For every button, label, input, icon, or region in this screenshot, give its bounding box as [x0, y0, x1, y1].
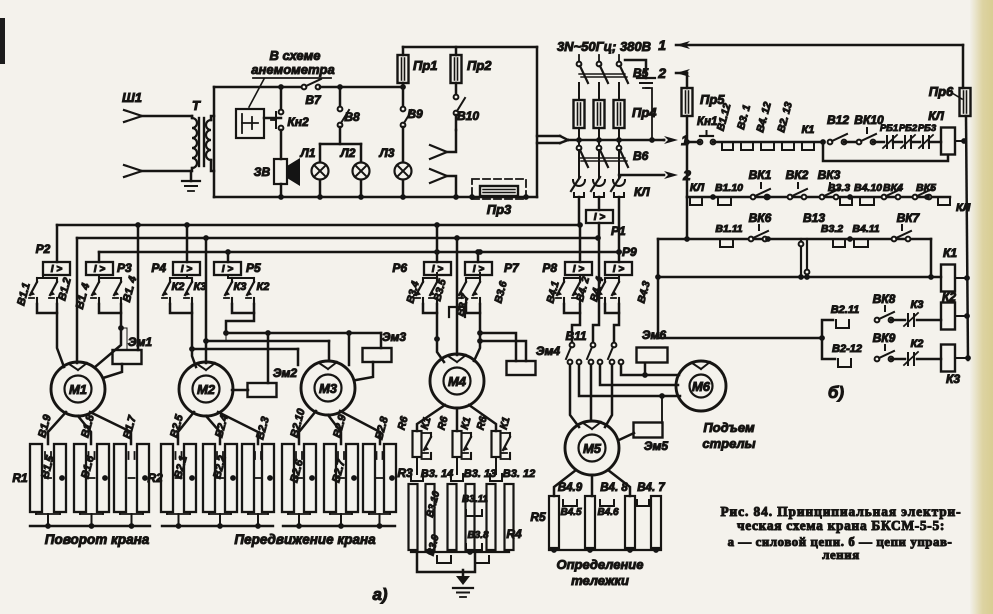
- wire link 2 arrow: [676, 69, 690, 77]
- contacts B1.3 B1.4: [98, 275, 100, 278]
- wire M2 fan to resistors: [178, 412, 194, 444]
- svg-text:Т: Т: [192, 98, 201, 113]
- switch B5 three pole: [578, 55, 580, 61]
- callout line to anemometer box: [249, 79, 264, 107]
- wire bus C: [99, 251, 619, 254]
- contacts B4.4 B4.3: [618, 275, 620, 278]
- wire M2 center feed: [205, 238, 208, 363]
- svg-text:В схеме: В схеме: [269, 48, 320, 63]
- svg-text:Рис. 84. Принципиальная эле: Рис. 84. Принципиальная электри-: [720, 504, 961, 519]
- wire M6 feed 3: [579, 365, 680, 396]
- overcurrent relay P1: [578, 197, 581, 223]
- svg-text:К2: К2: [172, 281, 185, 293]
- svg-text:Р2: Р2: [36, 242, 51, 256]
- svg-text:ВК3: ВК3: [818, 168, 841, 182]
- svg-text:Р8: Р8: [542, 261, 557, 275]
- svg-text:Передвижение крана: Передвижение крана: [234, 532, 376, 547]
- svg-text:К3: К3: [946, 372, 960, 386]
- svg-text:В2.11: В2.11: [831, 304, 860, 316]
- wire ground column: [646, 88, 652, 140]
- svg-text:РБ3: РБ3: [918, 123, 937, 134]
- contact RB1: [873, 141, 884, 144]
- contact VK1: [751, 195, 756, 200]
- svg-text:Ш1: Ш1: [122, 90, 142, 105]
- wire line 2 with arrow: [619, 174, 664, 177]
- svg-text:Эм3: Эм3: [382, 330, 407, 344]
- svg-text:В11: В11: [565, 329, 586, 343]
- contacts B3.6 pair: [479, 273, 481, 278]
- resistor column 80: [74, 444, 86, 512]
- bridge KL left: [690, 197, 702, 205]
- svg-text:Р5: Р5: [246, 261, 261, 275]
- fuses Pr4: [578, 83, 580, 100]
- wire anemometer to Kn2 column: [264, 117, 281, 120]
- svg-text:В4. 8: В4. 8: [600, 482, 628, 494]
- motor M3: [301, 361, 355, 415]
- svg-text:В3.2: В3.2: [821, 223, 843, 235]
- svg-text:Пр2: Пр2: [467, 58, 492, 73]
- wire transformer secondary to box: [211, 116, 214, 120]
- resistor column 167: [161, 444, 173, 512]
- wire Ш1 to transformer lower: [142, 170, 191, 173]
- svg-text:В3. 13: В3. 13: [464, 468, 496, 480]
- svg-text:Л1: Л1: [300, 146, 316, 160]
- svg-text:В12: В12: [827, 113, 849, 127]
- wire M5 bracket left: [564, 304, 580, 313]
- svg-text:Определение: Определение: [557, 557, 644, 572]
- bridge B4.10: [860, 197, 874, 205]
- svg-text:ВК4: ВК4: [883, 182, 903, 194]
- svg-text:РБ2: РБ2: [899, 123, 918, 134]
- resistor column 248: [242, 444, 254, 512]
- svg-text:В7: В7: [305, 93, 322, 107]
- wire column bottom: [247, 512, 249, 514]
- contacts K2 K3 of M2: [186, 275, 188, 278]
- svg-text:I >: I >: [94, 264, 106, 275]
- svg-text:ВК9: ВК9: [873, 331, 896, 345]
- svg-text:анемометра: анемометра: [251, 62, 334, 77]
- svg-text:К1: К1: [943, 246, 957, 260]
- wire bus B left drop M1 feed: [76, 238, 79, 363]
- svg-text:К2: К2: [257, 281, 270, 293]
- M4 lower resistor columns: [409, 484, 418, 550]
- contactor coil KL: [929, 141, 941, 144]
- resistor column 369: [363, 444, 375, 512]
- motor M4: [430, 354, 484, 408]
- svg-text:Р4: Р4: [151, 261, 166, 275]
- relay coil K2: [917, 319, 941, 322]
- svg-text:I >: I >: [613, 264, 625, 275]
- wire share line 2 to M3: [206, 340, 329, 343]
- svg-text:б): б): [828, 383, 845, 402]
- svg-text:I >: I >: [473, 264, 485, 275]
- svg-text:К3: К3: [911, 299, 924, 311]
- ground under transformer: [190, 171, 193, 181]
- wire M4 lower bank ties: [411, 474, 423, 481]
- svg-text:РБ1: РБ1: [880, 123, 898, 134]
- wire box bottom bus: [214, 196, 537, 199]
- M5 resistor columns: [549, 496, 559, 548]
- bridge B4.12: [761, 142, 774, 150]
- svg-text:В6: В6: [633, 149, 649, 163]
- contact VK3: [820, 195, 825, 200]
- svg-text:Поворот крана: Поворот крана: [45, 532, 150, 547]
- connector pair to B10: [430, 145, 447, 159]
- contact VK6: [749, 237, 754, 242]
- wire box right edge: [536, 47, 539, 197]
- wire column bottom: [208, 512, 210, 514]
- wire branch feed: [658, 320, 833, 338]
- wire share line 3 to M3: [192, 348, 298, 351]
- svg-text:В8: В8: [344, 110, 360, 124]
- wire left box edge: [213, 87, 216, 197]
- wire column bottom: [368, 512, 370, 514]
- contact VK7: [892, 237, 897, 242]
- wire M4 bank bottom bus: [411, 551, 509, 553]
- relay coil K3: [917, 358, 941, 361]
- wire M2 feeds: [192, 349, 196, 367]
- motor M2: [179, 362, 233, 416]
- svg-text:К1: К1: [802, 124, 815, 136]
- bridge K1: [802, 142, 814, 150]
- wire M4 fan to R6: [417, 405, 445, 431]
- wire M5 center feed: [593, 238, 599, 342]
- wire column bottom: [287, 512, 289, 514]
- svg-text:В4.11: В4.11: [852, 223, 879, 235]
- svg-text:Кн2: Кн2: [287, 115, 309, 129]
- wire share line 1 to M3: [226, 332, 381, 335]
- wire control row 5: [658, 276, 941, 279]
- svg-text:К3: К3: [234, 281, 247, 293]
- bridge B2.13: [782, 142, 794, 150]
- wire column bottom: [119, 512, 121, 514]
- wire pair to three-phase section: [537, 135, 560, 138]
- switch B7: [302, 85, 307, 90]
- contact VK10: [844, 141, 858, 144]
- bridge B2.12: [838, 359, 851, 367]
- wire lamp tie: [320, 143, 361, 146]
- svg-text:К2: К2: [911, 338, 924, 350]
- svg-text:Эм5: Эм5: [644, 439, 669, 453]
- resistor column 36: [30, 444, 42, 512]
- relay P3: [86, 262, 113, 275]
- resistor R6 column 2: [453, 431, 462, 457]
- wire box top left run: [214, 86, 301, 89]
- svg-text:тележки: тележки: [571, 573, 629, 588]
- wire box top feed: [403, 46, 537, 49]
- wire bus A: [57, 224, 581, 227]
- wire column bottom: [166, 512, 168, 514]
- contact RB3: [911, 141, 920, 144]
- svg-text:ВК7: ВК7: [897, 211, 921, 225]
- svg-text:ческая схема крана БКСМ-5-5: ческая схема крана БКСМ-5-5:: [737, 518, 945, 533]
- wire M2 bracket right: [232, 304, 254, 313]
- wire M5 bracket right: [605, 304, 619, 313]
- svg-text:М1: М1: [69, 382, 87, 397]
- wire M6 feed 1: [621, 365, 679, 375]
- wire Ш1 to transformer upper: [142, 115, 192, 118]
- resistor column 330: [324, 444, 336, 512]
- fuse Pr2: [455, 47, 458, 55]
- contact RB2: [893, 141, 902, 144]
- svg-text:I >: I >: [594, 212, 606, 223]
- wire control row 1: [687, 141, 700, 144]
- wire control row 4: [658, 238, 931, 241]
- svg-text:Пр3: Пр3: [487, 202, 512, 217]
- svg-text:М5: М5: [583, 441, 602, 456]
- svg-text:В1.10: В1.10: [715, 182, 743, 194]
- svg-text:3N~50Гц; 380В: 3N~50Гц; 380В: [557, 39, 651, 54]
- fuse Pr1: [402, 47, 405, 55]
- contacts B4.1 B4.2: [579, 275, 581, 278]
- switch B10: [454, 95, 459, 100]
- ground of three-phase: [625, 60, 646, 78]
- wire M6 feed 2: [600, 365, 678, 385]
- svg-text:1: 1: [658, 37, 666, 53]
- svg-text:В2-12: В2-12: [832, 343, 862, 355]
- fuse Pr3 dashed box: [472, 179, 526, 199]
- wire column bottom: [35, 512, 37, 514]
- bridge B1.11: [720, 239, 733, 247]
- svg-text:В4.9: В4.9: [558, 482, 583, 494]
- relay P9: [605, 262, 632, 275]
- svg-text:В3. 12: В3. 12: [503, 468, 535, 480]
- scan artifact left edge: [0, 18, 5, 64]
- wire M4 ground rail: [417, 552, 475, 572]
- svg-text:Р3: Р3: [117, 261, 132, 275]
- svg-text:R5: R5: [530, 510, 546, 524]
- contact K2 in K3 branch: [891, 358, 905, 361]
- svg-text:2: 2: [657, 65, 666, 81]
- svg-text:Кн1: Кн1: [697, 116, 717, 128]
- svg-text:М6: М6: [692, 379, 711, 394]
- svg-text:I >: I >: [573, 264, 585, 275]
- svg-text:Подъем: Подъем: [703, 420, 755, 435]
- svg-text:Эм1: Эм1: [128, 335, 153, 349]
- svg-text:ления: ления: [822, 548, 860, 562]
- svg-text:В3. 14: В3. 14: [421, 468, 453, 480]
- wire R6 bottom: [495, 457, 497, 474]
- yellowed page edge strip: [0, 0, 1, 1]
- wire M1 fan to resistors: [48, 412, 66, 444]
- wire bus C left drop to P3: [98, 252, 101, 262]
- wire M2 bracket left: [170, 304, 192, 313]
- fuse Pr5: [686, 73, 689, 88]
- svg-text:К3: К3: [194, 281, 207, 293]
- svg-text:Р7: Р7: [504, 261, 520, 275]
- contact VK4: [882, 195, 887, 200]
- bridge B3.2: [833, 239, 845, 247]
- svg-text:R2: R2: [147, 471, 163, 485]
- svg-text:КЛ: КЛ: [956, 202, 971, 214]
- resistor column 209: [203, 444, 215, 512]
- svg-text:М4: М4: [448, 374, 467, 389]
- wire R6 bottom: [456, 457, 458, 474]
- svg-text:Эм4: Эм4: [536, 344, 561, 358]
- wire row4 right drop: [930, 239, 933, 277]
- bridge B3.1: [741, 142, 753, 150]
- bridge B1.10: [718, 197, 731, 205]
- switch B9: [402, 87, 405, 107]
- contacts B1.1 B1.2: [42, 275, 44, 278]
- relay P7: [465, 262, 492, 275]
- contact VK8: [875, 318, 880, 323]
- svg-text:В10: В10: [457, 109, 479, 123]
- svg-text:Эм2: Эм2: [273, 366, 298, 380]
- wire bus A left drop to P2: [56, 225, 59, 262]
- wire bank bottom bus: [30, 525, 150, 527]
- wire box top right run: [320, 86, 403, 89]
- svg-text:М2: М2: [197, 382, 216, 397]
- wire row3 drop left: [686, 197, 689, 239]
- contact VK2: [788, 195, 793, 200]
- resistor R6 column 1: [413, 431, 422, 457]
- motor M1: [51, 362, 105, 416]
- bridge B4.11: [854, 239, 868, 247]
- svg-text:Р6: Р6: [392, 261, 407, 275]
- contacts B3.4 B3.5: [436, 273, 438, 278]
- wire row1 sub line: [823, 142, 948, 161]
- svg-text:В9: В9: [407, 107, 423, 121]
- svg-text:КЛ: КЛ: [634, 185, 650, 199]
- svg-text:ВК6: ВК6: [749, 211, 772, 225]
- wire column bottom: [329, 512, 331, 514]
- wire line 1 with arrow: [568, 139, 664, 142]
- contact K1 column 2: [462, 432, 472, 434]
- svg-text:В4.10: В4.10: [854, 182, 882, 194]
- svg-text:R4: R4: [506, 527, 522, 541]
- wire M1 contact bracket left: [37, 304, 57, 313]
- svg-text:В4. 7: В4. 7: [637, 482, 665, 494]
- contact K3 in K2 branch: [891, 319, 905, 322]
- svg-text:Эм6: Эм6: [642, 328, 667, 342]
- svg-text:ВК2: ВК2: [786, 168, 809, 182]
- svg-text:а): а): [372, 585, 387, 604]
- svg-text:R1: R1: [12, 471, 28, 485]
- svg-text:ЗВ: ЗВ: [254, 165, 271, 179]
- contacts K3 K2 of M2: [227, 275, 229, 278]
- contact VK9: [875, 357, 880, 362]
- lamp L3: [402, 127, 405, 162]
- svg-text:Р9: Р9: [622, 245, 637, 259]
- wire M4 center feed: [456, 238, 459, 355]
- svg-text:Л3: Л3: [379, 146, 395, 160]
- svg-text:Пр6: Пр6: [929, 84, 954, 99]
- bridge B3.3: [840, 197, 852, 205]
- svg-text:В3.3: В3.3: [828, 182, 850, 194]
- bridge B1.12: [722, 142, 733, 150]
- wire M5 fan to resistors: [554, 470, 576, 496]
- wire control row 3: [687, 196, 950, 199]
- bridge KL right: [938, 197, 950, 205]
- svg-text:В1.11: В1.11: [715, 223, 742, 235]
- resistor column 120: [114, 444, 126, 512]
- switch B12: [828, 140, 833, 145]
- anemometer relay box: [236, 109, 264, 138]
- svg-text:КЛ: КЛ: [928, 109, 944, 123]
- svg-text:I >: I >: [51, 264, 63, 275]
- svg-text:Пр1: Пр1: [413, 58, 438, 73]
- ground of M4 bank: [462, 570, 465, 581]
- brake magnet Em5: [634, 423, 663, 438]
- wire M3 feeds: [297, 349, 300, 365]
- push button Kn2: [280, 87, 283, 110]
- wire bus B: [77, 237, 598, 240]
- wire R6 bottom: [416, 457, 418, 474]
- contactor KL main contacts: [578, 172, 580, 177]
- contact K1 column 3: [501, 432, 511, 434]
- svg-text:а — силовой цепи. б — цепи: а — силовой цепи. б — цепи управ-: [728, 535, 953, 549]
- svg-text:КЛ: КЛ: [690, 182, 705, 194]
- svg-text:В3.8: В3.8: [467, 530, 489, 541]
- wire bank bottom bus: [283, 525, 395, 527]
- resistor R6 column 3: [492, 431, 501, 457]
- wire bank bottom bus: [162, 525, 273, 527]
- svg-text:В4.5: В4.5: [560, 507, 582, 518]
- wire left control bus: [686, 142, 689, 197]
- svg-text:В3.11: В3.11: [462, 494, 488, 505]
- svg-text:стрелы: стрелы: [702, 436, 755, 451]
- relay P5: [214, 262, 241, 275]
- svg-text:Р1: Р1: [611, 224, 626, 238]
- svg-text:ВК1: ВК1: [749, 168, 772, 182]
- motor M6: [676, 361, 726, 411]
- svg-text:ВК8: ВК8: [873, 292, 896, 306]
- wire M5 bank bottom bus: [549, 549, 661, 551]
- svg-text:I >: I >: [181, 264, 193, 275]
- wire M5 feeds from B11: [570, 365, 579, 427]
- svg-text:М3: М3: [319, 381, 338, 396]
- svg-text:В4.6: В4.6: [597, 507, 619, 518]
- switch B8: [339, 87, 342, 107]
- wire M1 contact bracket right: [99, 304, 121, 313]
- svg-text:I >: I >: [222, 264, 234, 275]
- lamp L1: [319, 144, 322, 162]
- svg-text:Пр4: Пр4: [632, 105, 657, 120]
- switch B6 three pole: [578, 140, 580, 146]
- motor M5: [565, 421, 619, 475]
- wire M4 bracket left: [423, 304, 437, 313]
- wire link 1 arrow: [676, 41, 690, 49]
- contact VK5: [913, 195, 918, 200]
- bridge B2.11: [836, 320, 849, 328]
- svg-text:Л2: Л2: [340, 146, 356, 160]
- wire M3 fan to resistors: [299, 411, 316, 444]
- contact K1 column 1: [422, 432, 432, 434]
- resistor column 288: [282, 444, 294, 512]
- wire M4 bracket right: [466, 304, 480, 313]
- svg-text:ВК5: ВК5: [916, 182, 936, 194]
- wire column bottom: [79, 512, 81, 514]
